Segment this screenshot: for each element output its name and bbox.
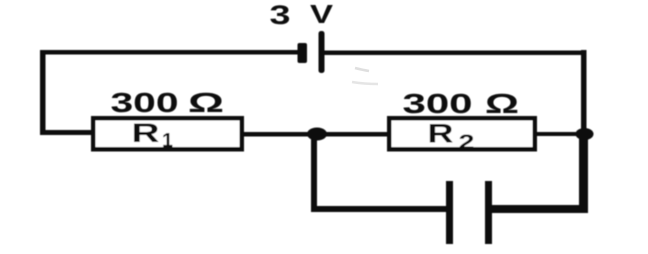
svg-text:V: V <box>310 0 334 29</box>
wire top right segment <box>322 51 586 56</box>
capacitor C1 right plate <box>485 181 492 244</box>
svg-text:Ω: Ω <box>485 88 519 119</box>
wire bottom right <box>492 205 588 213</box>
capacitor C1 left plate <box>446 181 453 244</box>
wire bottom left <box>311 206 446 212</box>
svg-text:R: R <box>428 119 454 149</box>
wire right vertical upper <box>581 50 587 134</box>
resistor R1 <box>93 118 242 149</box>
svg-text:3: 3 <box>270 0 291 30</box>
node junction left <box>307 128 327 141</box>
svg-text:R: R <box>132 118 160 148</box>
scan smudge <box>355 68 369 71</box>
svg-text:2: 2 <box>459 131 475 154</box>
svg-text:Ω: Ω <box>188 87 224 118</box>
svg-text:1: 1 <box>162 130 173 152</box>
svg-text:300: 300 <box>111 87 179 118</box>
resistor R2 <box>389 118 535 149</box>
node junction right <box>576 128 594 140</box>
wire left to R1 <box>40 130 93 135</box>
wire left vertical <box>40 50 46 135</box>
wire R2 to right vertical <box>535 132 586 136</box>
wire R1 to R2 <box>242 132 389 137</box>
battery V1 positive plate <box>319 31 325 73</box>
svg-text:300: 300 <box>403 88 473 119</box>
battery V1 negative plate <box>298 43 308 63</box>
wire right vertical lower <box>579 134 588 213</box>
wire left drop from junction <box>311 134 317 212</box>
wire top left segment <box>40 50 302 55</box>
